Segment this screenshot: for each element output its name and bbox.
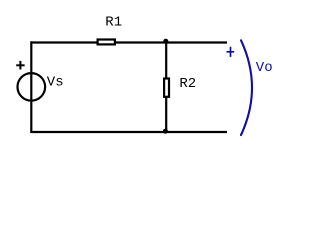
svg-text:R1: R1 [105, 14, 122, 30]
svg-text:Vs: Vs [47, 74, 64, 90]
svg-text:R2: R2 [179, 76, 196, 92]
svg-text:Vo: Vo [256, 60, 273, 76]
